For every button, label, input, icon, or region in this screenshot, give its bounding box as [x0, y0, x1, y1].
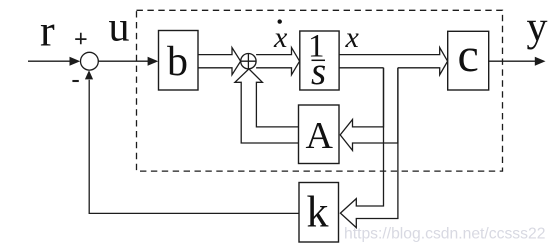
svg-text:u: u — [109, 4, 130, 50]
svg-text:k: k — [307, 188, 329, 237]
block k — [299, 183, 339, 243]
wire k output feedback to summing junction — [89, 80, 299, 214]
svg-text:https://blog.csdn.net/ccsss22: https://blog.csdn.net/ccsss22 — [344, 226, 545, 243]
label + — [75, 33, 86, 44]
block A — [299, 105, 340, 164]
svg-text:x: x — [345, 21, 360, 54]
hollow arrow sum2 to 1/s — [256, 48, 300, 75]
hollow wire branch down to A — [340, 68, 398, 151]
block c — [448, 31, 489, 90]
svg-text:x: x — [273, 21, 288, 54]
hollow wire A output to sum2 — [235, 69, 299, 143]
hollow wire 1/s to c with down branch — [339, 48, 448, 75]
svg-text:A: A — [306, 115, 334, 157]
svg-text:r: r — [40, 7, 55, 56]
hollow wire branch down to k — [340, 68, 398, 228]
svg-text:c: c — [458, 29, 479, 82]
dashed boundary box — [137, 10, 503, 171]
label x-dot — [278, 19, 282, 23]
wire u (junction to b) — [98, 60, 149, 62]
summing junction sum2 (circle with plus) — [241, 54, 256, 69]
wire y output — [489, 60, 536, 62]
svg-text:b: b — [167, 39, 188, 85]
label - — [72, 80, 78, 82]
block 1/s — [300, 31, 339, 90]
hollow arrow b to sum2 — [198, 48, 241, 75]
svg-text:y: y — [527, 5, 548, 51]
block b — [159, 31, 199, 91]
wire r input — [28, 60, 71, 62]
summing junction (left) — [81, 52, 99, 70]
svg-text:s: s — [311, 50, 326, 93]
